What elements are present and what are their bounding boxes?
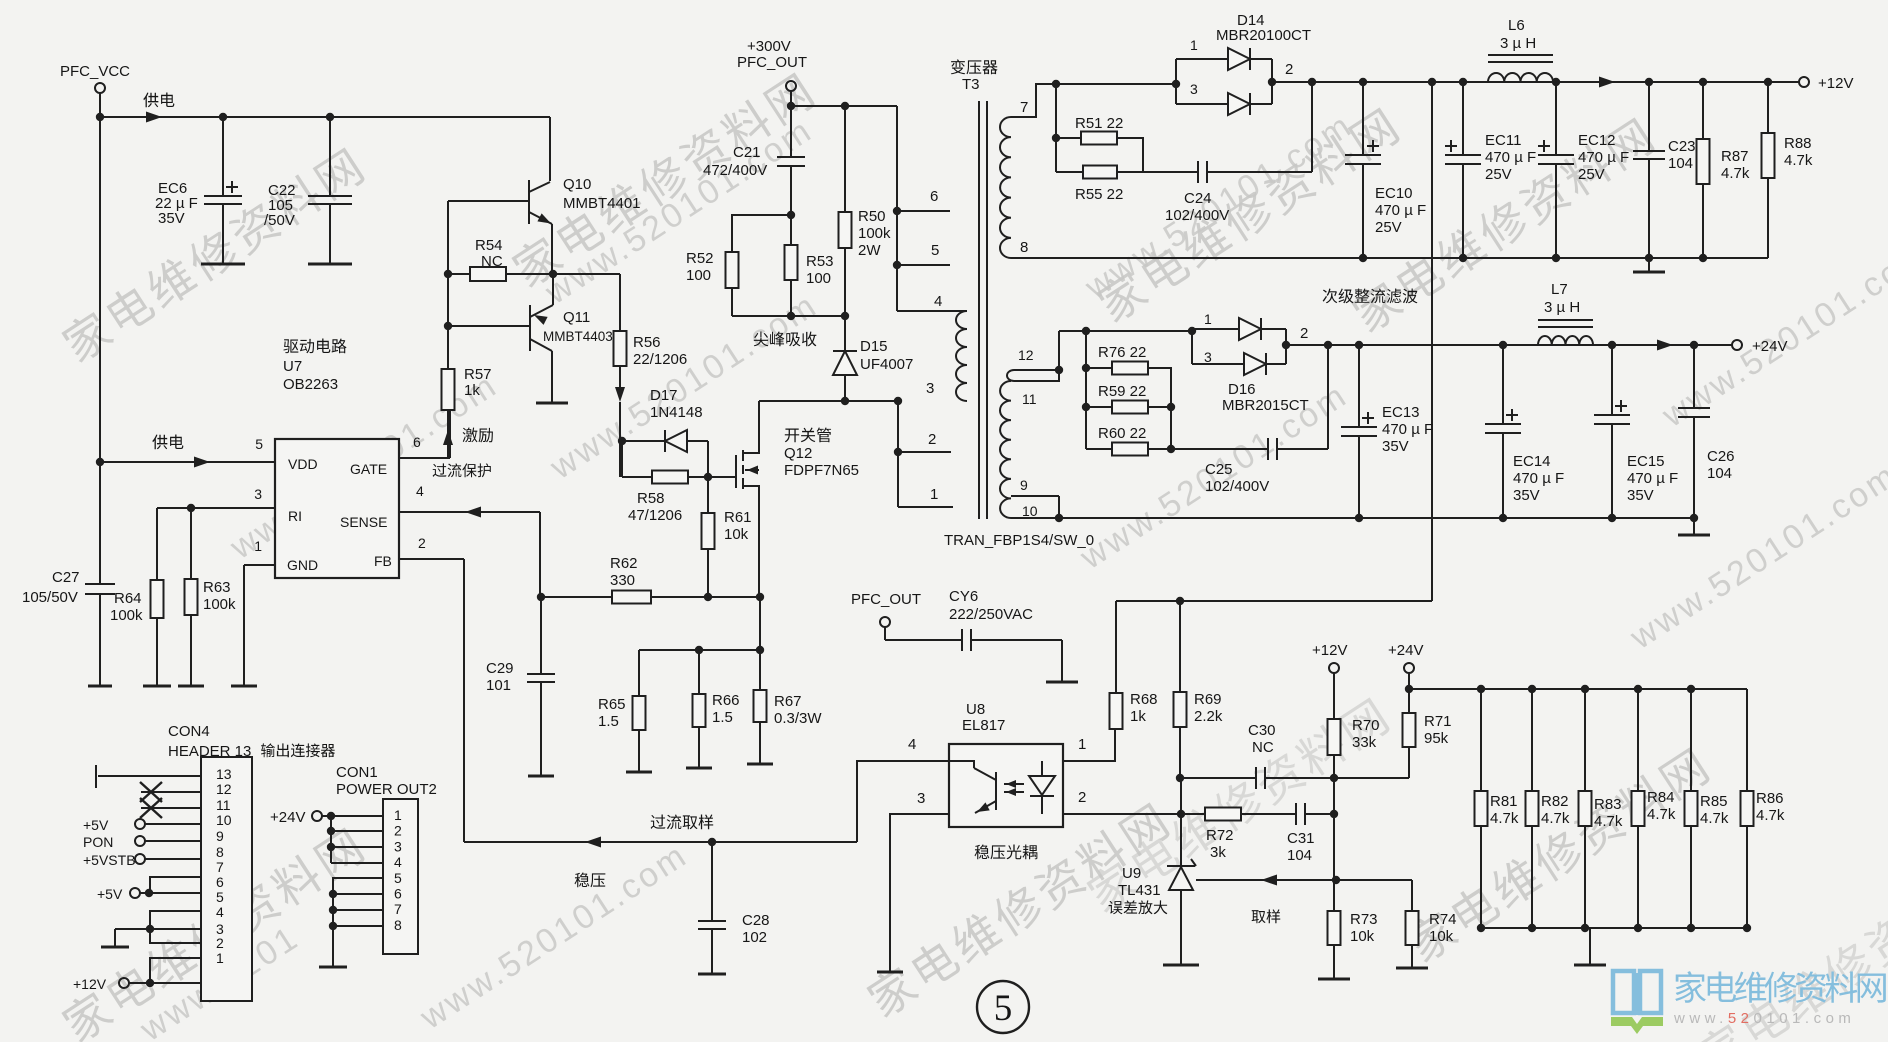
wire PFC_VCC stem (99, 93, 101, 117)
svg-text:R67: R67 (774, 693, 802, 710)
capacitor EC13 470uF 35V (1358, 345, 1360, 427)
svg-text:CON1: CON1 (336, 764, 378, 781)
svg-text:7: 7 (394, 901, 402, 917)
svg-text:R74: R74 (1429, 911, 1457, 928)
ground R66 (686, 767, 712, 770)
wire Q11 emitter to ground (551, 351, 553, 403)
svg-text:11: 11 (216, 797, 231, 813)
svg-text:6: 6 (394, 886, 402, 902)
capacitor C27 105/50V (99, 462, 101, 584)
label 稳压光耦 opto (974, 845, 1037, 860)
svg-text:R71: R71 (1424, 713, 1452, 730)
arrow 12V direction (1599, 77, 1615, 88)
wire R71 bottom tie (1334, 777, 1409, 779)
svg-text:2.2k: 2.2k (1194, 708, 1223, 725)
capacitor C26 104 (1693, 345, 1695, 408)
svg-text:C23: C23 (1668, 138, 1696, 155)
svg-text:3: 3 (926, 380, 934, 397)
capacitor C25 102/400V (1267, 438, 1269, 460)
svg-text:+24V: +24V (1388, 642, 1423, 659)
wire pin4 (857, 761, 949, 842)
svg-text:FDPF7N65: FDPF7N65 (784, 462, 859, 479)
svg-text:U9: U9 (1122, 865, 1141, 882)
svg-text:3: 3 (1204, 349, 1212, 365)
transistor Q12 FDPF7N65 MOSFET (735, 455, 737, 488)
wire source rail (541, 596, 760, 598)
diode D16 upper (1192, 328, 1239, 330)
svg-text:R72: R72 (1206, 827, 1234, 844)
wire Q10 emitter to node (551, 224, 553, 274)
ground Q11 (536, 402, 568, 405)
diode D14 upper (1176, 58, 1228, 60)
wire primary bottom bus (897, 401, 899, 507)
svg-text:100k: 100k (203, 596, 236, 613)
wire Q10 base (448, 200, 529, 202)
svg-text:4.7k: 4.7k (1721, 165, 1750, 182)
svg-text:22/1206: 22/1206 (633, 351, 687, 368)
wire snubber bottom (732, 315, 845, 317)
junction C26 (1690, 341, 1698, 349)
svg-text:1: 1 (394, 807, 402, 823)
svg-text:R56: R56 (633, 334, 661, 351)
capacitor CY6 222/250VAC (961, 629, 963, 651)
capacitor EC10 470uF 25V (1362, 82, 1364, 155)
ground 24V rail (1693, 518, 1695, 535)
svg-text:101: 101 (486, 677, 511, 694)
svg-text:R73: R73 (1350, 911, 1378, 928)
svg-text:L7: L7 (1551, 281, 1568, 298)
svg-text:2: 2 (216, 935, 224, 951)
junction C24 top (1308, 78, 1316, 86)
resistor R67 0.3/3W (754, 690, 767, 722)
svg-text:PFC_OUT: PFC_OUT (737, 54, 807, 71)
svg-text:3: 3 (1190, 81, 1198, 97)
svg-text:OB2263: OB2263 (283, 376, 338, 393)
svg-text:R66: R66 (712, 692, 740, 709)
svg-text:R76 22: R76 22 (1098, 344, 1146, 361)
wire PFC_VCC left vertical (99, 117, 101, 584)
svg-text:4.7k: 4.7k (1647, 806, 1676, 823)
wire pin11 no-connect (141, 807, 201, 809)
svg-text:5: 5 (994, 988, 1013, 1029)
svg-text:R84: R84 (1647, 789, 1675, 806)
wire pin2 to R72 (1180, 778, 1182, 866)
svg-text:2: 2 (1300, 325, 1308, 342)
junction C28 (708, 838, 716, 846)
logo text 家电维修资料网 (1675, 971, 1886, 1003)
junction R51 bus (1052, 80, 1060, 88)
wire +24V rail (1286, 344, 1733, 346)
capacitor EC11 470uF 25V (1462, 82, 1464, 155)
capacitor C21 472/400V (790, 106, 792, 157)
svg-text:+5V: +5V (97, 886, 123, 902)
wire VDD supply (100, 461, 275, 463)
wire feedback drop upper (1431, 82, 1433, 601)
svg-text:T3: T3 (962, 76, 980, 93)
wire pin2 (1063, 813, 1181, 815)
junction EC12 (1552, 78, 1560, 86)
svg-text:RI: RI (288, 508, 302, 524)
svg-text:R63: R63 (203, 579, 231, 596)
svg-text:GATE: GATE (350, 461, 387, 477)
junction R84 (1634, 685, 1642, 693)
svg-text:CON4: CON4 (168, 723, 210, 740)
wire PFC_OUT stem (790, 91, 792, 106)
junction feedback drop (1428, 78, 1436, 86)
svg-text:C27: C27 (52, 569, 80, 586)
resistor R88 4.7k (1767, 82, 1769, 133)
svg-text:4.7k: 4.7k (1756, 807, 1785, 824)
junction R85 (1687, 685, 1695, 693)
wire SENSE down (539, 512, 541, 597)
diode D16 lower (1192, 363, 1244, 365)
node +12V pin1 (119, 978, 129, 988)
svg-text:+12V: +12V (73, 976, 107, 992)
wire Q11 base (448, 325, 530, 327)
resistor R65 1.5 (638, 650, 640, 696)
svg-text:2: 2 (928, 431, 936, 448)
svg-text:VDD: VDD (288, 456, 318, 472)
svg-text:EC10: EC10 (1375, 185, 1413, 202)
svg-text:7: 7 (216, 859, 224, 875)
junction D17 (618, 437, 626, 445)
wire CY6 (884, 627, 886, 640)
svg-text:5: 5 (394, 870, 402, 886)
diode D17 1N4148 (622, 440, 665, 442)
diode D15 UF4007 (844, 316, 846, 351)
ground R65 (626, 771, 652, 774)
pin 4 (897, 310, 967, 312)
wire pin2 bracket (150, 929, 201, 943)
svg-text:1k: 1k (1130, 708, 1146, 725)
svg-text:R70: R70 (1352, 717, 1380, 734)
wire R51 R55 bus (1055, 84, 1057, 172)
svg-text:Q11: Q11 (563, 309, 590, 326)
svg-text:35V: 35V (1513, 487, 1540, 504)
svg-text:+24V: +24V (270, 809, 305, 826)
svg-text:MBR2015CT: MBR2015CT (1222, 397, 1309, 414)
svg-text:+300V: +300V (747, 38, 791, 55)
svg-text:D17: D17 (650, 387, 678, 404)
ground R74 (1396, 967, 1428, 970)
svg-text:MMBT4401: MMBT4401 (563, 195, 641, 212)
junction R82 (1528, 685, 1536, 693)
ground R67 (747, 763, 773, 766)
svg-text:470 µ F: 470 µ F (1578, 149, 1629, 166)
wire D16 anode bar (1191, 329, 1193, 364)
svg-text:35V: 35V (158, 210, 185, 227)
svg-text:R87: R87 (1721, 148, 1749, 165)
capacitor C30 NC (1180, 777, 1256, 779)
svg-text:C28: C28 (742, 912, 770, 929)
junction R81 (1477, 685, 1485, 693)
svg-text:1: 1 (1190, 37, 1198, 53)
svg-text:R69: R69 (1194, 691, 1222, 708)
svg-text:EC15: EC15 (1627, 453, 1665, 470)
svg-text:25V: 25V (1578, 166, 1605, 183)
wire 12V feedback feed (1116, 600, 1432, 602)
label 过流保护 overcurrent protect (433, 463, 491, 477)
resistor R70 33k (1333, 673, 1335, 719)
svg-text:13: 13 (216, 766, 232, 782)
pin 2 (898, 451, 951, 453)
winding secondary lower (1000, 381, 1011, 518)
svg-text:R81: R81 (1490, 793, 1518, 810)
svg-text:Q10: Q10 (563, 176, 591, 193)
svg-text:R82: R82 (1541, 793, 1569, 810)
svg-text:1: 1 (1204, 311, 1212, 327)
ground R73 (1318, 978, 1350, 981)
transformer T3 label (951, 59, 998, 74)
svg-text:10k: 10k (1429, 928, 1454, 945)
wire CON1 lower bracket (333, 878, 383, 967)
wire FB stub (399, 558, 464, 560)
svg-text:R55 22: R55 22 (1075, 186, 1123, 203)
svg-text:47/1206: 47/1206 (628, 507, 682, 524)
svg-text:R65: R65 (598, 696, 626, 713)
wire top supply rail (100, 116, 550, 118)
wire RI divider (157, 507, 275, 509)
svg-text:+5V: +5V (83, 817, 109, 833)
svg-text:4.7k: 4.7k (1594, 813, 1623, 830)
wire R56 feed (553, 273, 620, 275)
svg-text:TL431: TL431 (1118, 882, 1161, 899)
svg-text:R53: R53 (806, 253, 834, 270)
resistor R73 10k (1333, 880, 1335, 911)
ground C28 (698, 973, 726, 976)
resistor R82 4.7k (1531, 689, 1533, 791)
wire D16 cathode bar (1285, 329, 1287, 364)
wire SENSE line (399, 511, 540, 513)
diode D14 lower (1176, 103, 1228, 105)
wire 24V branch (1408, 673, 1410, 689)
svg-text:104: 104 (1668, 155, 1693, 172)
inductor L6 3uH (1488, 54, 1553, 56)
svg-text:470 µ F: 470 µ F (1513, 470, 1564, 487)
svg-text:100k: 100k (110, 607, 143, 624)
svg-text:C30: C30 (1248, 722, 1276, 739)
wire GND pin (244, 564, 275, 566)
svg-text:10: 10 (216, 812, 232, 828)
svg-text:35V: 35V (1382, 438, 1409, 455)
svg-text:4: 4 (394, 854, 402, 870)
svg-text:2: 2 (394, 823, 402, 839)
resistor R57 1k (442, 369, 455, 410)
svg-text:R86: R86 (1756, 790, 1784, 807)
svg-text:1: 1 (216, 950, 224, 966)
svg-text:4: 4 (934, 293, 942, 310)
node +5VSTB pin8 (135, 854, 145, 864)
svg-text:6: 6 (930, 188, 938, 205)
resistor R53 100 (790, 215, 792, 245)
svg-text:1: 1 (930, 486, 938, 503)
svg-text:4: 4 (416, 483, 424, 499)
resistor R51 22 (1056, 137, 1081, 139)
wire pin7 bracket (150, 877, 201, 893)
resistor R74 10k (1411, 880, 1413, 911)
winding primary (956, 311, 967, 401)
svg-text:6: 6 (216, 874, 224, 890)
resistor R81 4.7k (1480, 689, 1482, 791)
label 供电 VDD (152, 435, 183, 450)
resistor R83 4.7k (1584, 689, 1586, 791)
svg-text:2: 2 (1285, 61, 1293, 78)
op-amp U7 OB2263 controller box (275, 439, 399, 578)
svg-text:www.520101.com: www.520101.com (1673, 1010, 1855, 1027)
wire Q11 collector from node (552, 274, 554, 305)
wire pin13 + terminal (98, 775, 201, 777)
resistor R59 22 (1086, 406, 1112, 408)
wire R56 to D17 node (619, 366, 621, 388)
svg-text:EL817: EL817 (962, 717, 1005, 734)
junction EC14 (1499, 341, 1507, 349)
wire base bias vertical (447, 201, 449, 369)
svg-text:CY6: CY6 (949, 588, 978, 605)
wire pin12 riser (1058, 331, 1060, 370)
svg-text:R51 22: R51 22 (1075, 115, 1123, 132)
winding secondary lower pin12 loop (1014, 369, 1059, 371)
svg-text:2: 2 (418, 535, 426, 551)
wire pin3 (890, 814, 949, 972)
wire secondary ground rail 12V (1011, 257, 1768, 259)
resistor R64 100k (156, 508, 158, 580)
svg-text:EC13: EC13 (1382, 404, 1420, 421)
svg-text:PON: PON (83, 834, 113, 850)
svg-text:EC12: EC12 (1578, 132, 1616, 149)
svg-text:100: 100 (806, 270, 831, 287)
ground 12V rail (1648, 258, 1650, 272)
resistor R62 330 (612, 591, 651, 604)
junction EC6 (219, 113, 227, 121)
opto arrows (1004, 783, 1024, 785)
resistor R76 22 (1086, 367, 1112, 369)
capacitor C22 (329, 117, 331, 196)
svg-text:5: 5 (931, 242, 939, 259)
node +5V pin10 (135, 819, 145, 829)
node +24V terminal (1732, 340, 1742, 350)
svg-text:100: 100 (686, 267, 711, 284)
svg-text:11: 11 (1022, 391, 1037, 407)
wire Q10 collector drop (549, 117, 551, 181)
svg-text:TRAN_FBP1S4/SW_0: TRAN_FBP1S4/SW_0 (944, 532, 1094, 549)
resistor R66 1.5 (698, 650, 700, 694)
svg-text:+12V: +12V (1818, 75, 1853, 92)
svg-text:470 µ F: 470 µ F (1382, 421, 1433, 438)
ground U7 (231, 685, 257, 688)
svg-text:102: 102 (742, 929, 767, 946)
page number 5 (977, 981, 1029, 1033)
svg-text:L6: L6 (1508, 17, 1525, 34)
svg-text:PFC_VCC: PFC_VCC (60, 63, 130, 80)
junction R87 (1699, 78, 1707, 86)
ground load rail (1589, 928, 1591, 965)
label 尖峰吸收 spike absorb (754, 332, 817, 347)
wire load rail bottom (1481, 927, 1747, 929)
svg-text:10k: 10k (1350, 928, 1375, 945)
svg-text:C29: C29 (486, 660, 514, 677)
svg-text:NC: NC (1252, 739, 1274, 756)
ground CON4 (101, 946, 129, 949)
svg-text:EC11: EC11 (1485, 132, 1521, 149)
ground EC6 (201, 263, 245, 266)
wire pin4 ground (146, 925, 154, 933)
svg-text:+24V: +24V (1752, 338, 1787, 355)
svg-text:8: 8 (1020, 239, 1028, 256)
wire D16 feed (1059, 330, 1192, 332)
resistor R87 4.7k (1702, 82, 1704, 139)
svg-text:4.7k: 4.7k (1700, 810, 1729, 827)
junction R54 left (444, 270, 452, 278)
ground C27 (88, 685, 112, 688)
svg-text:8: 8 (216, 844, 224, 860)
resistor R54 (448, 273, 470, 275)
node PON pin9 (135, 836, 145, 846)
svg-text:EC14: EC14 (1513, 453, 1551, 470)
svg-text:C24: C24 (1184, 190, 1212, 207)
capacitor EC14 470uF 35V (1502, 345, 1504, 424)
connector CON4 box (201, 757, 252, 1001)
resistor R86 4.7k (1746, 689, 1748, 791)
svg-text:9: 9 (216, 828, 224, 844)
junction C25 top (1324, 341, 1332, 349)
resistor R72 3k (1181, 813, 1205, 815)
svg-text:470 µ F: 470 µ F (1375, 202, 1426, 219)
svg-text:POWER OUT2: POWER OUT2 (336, 781, 437, 798)
wire FB line (464, 841, 857, 843)
arrow 24V direction (1657, 340, 1673, 351)
svg-text:5: 5 (255, 436, 263, 452)
resistor R84 4.7k (1637, 689, 1639, 791)
wire ground rail 24V (1011, 517, 1694, 519)
svg-text:GND: GND (287, 557, 318, 573)
junctions ground rail 12V (1359, 254, 1367, 262)
svg-text:FB: FB (374, 553, 392, 569)
arrow gate drive up (443, 430, 453, 445)
wire drain to primary (759, 400, 897, 402)
svg-text:/50V: /50V (264, 212, 295, 229)
svg-text:R52: R52 (686, 250, 714, 267)
svg-text:4.7k: 4.7k (1541, 810, 1570, 827)
svg-text:470 µ F: 470 µ F (1627, 470, 1678, 487)
capacitor C28 102 (711, 842, 713, 921)
ground R63 (178, 685, 204, 688)
svg-text:4: 4 (216, 904, 224, 920)
svg-text:12: 12 (1018, 347, 1034, 363)
label 开关管 Q12 (785, 428, 831, 443)
svg-text:472/400V: 472/400V (703, 162, 767, 179)
svg-text:+12V: +12V (1312, 642, 1347, 659)
op-amp U8 EL817 optocoupler box (949, 744, 1063, 827)
svg-text:3: 3 (917, 790, 925, 807)
svg-text:R85: R85 (1700, 793, 1728, 810)
ground R64 (143, 685, 171, 688)
junction EC10 (1359, 78, 1367, 86)
svg-text:1: 1 (1078, 736, 1086, 753)
svg-text:102/400V: 102/400V (1205, 478, 1269, 495)
svg-text:4.7k: 4.7k (1784, 152, 1813, 169)
svg-text:R50: R50 (858, 208, 886, 225)
pin 6 (897, 210, 950, 212)
pin 9 (1011, 495, 1059, 497)
svg-text:3 µ H: 3 µ H (1544, 299, 1580, 316)
svg-text:R64: R64 (114, 590, 142, 607)
svg-text:8: 8 (394, 917, 402, 933)
resistor R55 22 (1056, 171, 1083, 173)
opto LED inside U8 (1041, 761, 1043, 776)
svg-text:2W: 2W (858, 242, 881, 259)
resistor R52 100 (732, 215, 791, 252)
junction pin2 node (1177, 810, 1185, 818)
